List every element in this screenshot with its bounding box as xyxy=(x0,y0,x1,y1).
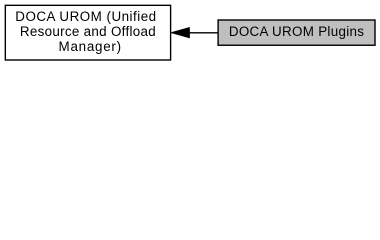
svg-text:Manager): Manager) xyxy=(59,39,122,54)
svg-text:DOCA UROM Plugins: DOCA UROM Plugins xyxy=(229,24,364,39)
node: DOCA UROM (Unified Resource and Offload Manager) xyxy=(5,5,170,60)
svg-text:DOCA UROM (Unified: DOCA UROM (Unified xyxy=(15,9,156,24)
node: DOCA UROM Plugins xyxy=(218,20,375,45)
arrowhead xyxy=(171,27,190,38)
svg-text:Resource and Offload: Resource and Offload xyxy=(20,24,156,39)
wire: edge from DOCA UROM Plugins to DOCA UROM xyxy=(171,27,219,38)
